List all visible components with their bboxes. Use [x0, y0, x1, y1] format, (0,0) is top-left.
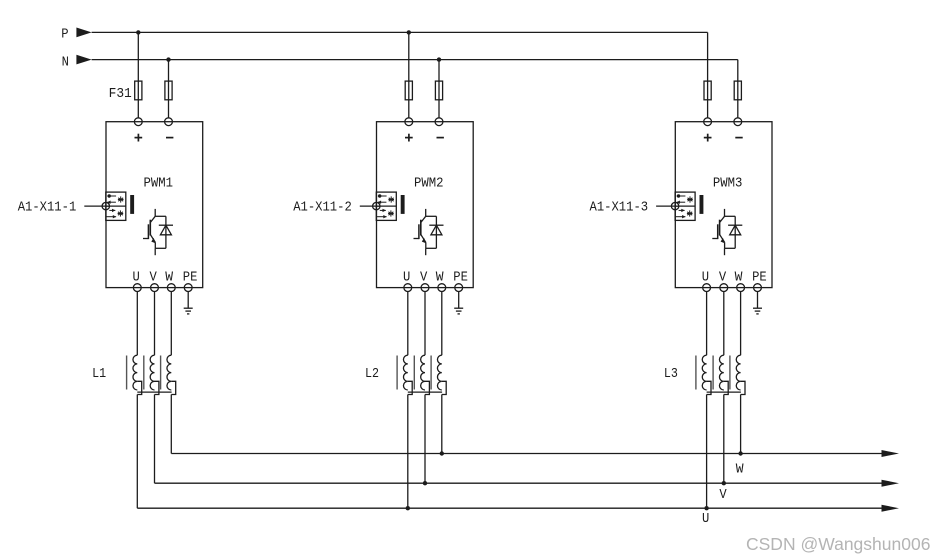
node P junction PWM1 [136, 30, 140, 34]
IGBT Q3 [712, 209, 735, 255]
inductor L2 winding W core bar [430, 356, 432, 390]
wire reactor L3 W to bus [740, 395, 742, 454]
node W bus junction PWM2 [440, 451, 444, 455]
inductor L1 winding W [167, 355, 171, 390]
wire N to fuse (PWM3) [737, 60, 739, 82]
wire fuse to - terminal (PWM1) [168, 100, 170, 118]
wire reactor L1 W to bus [170, 395, 172, 454]
label + (PWM1) [135, 137, 143, 139]
terminal - (PWM1) [165, 118, 173, 126]
svg-text:U: U [702, 270, 709, 286]
V output arrow [882, 480, 900, 487]
svg-text:U: U [132, 270, 139, 286]
wire PE to ground (PWM1) [187, 292, 189, 309]
inductor L3 winding W [736, 355, 740, 390]
node U bus junction PWM3 [704, 506, 708, 510]
inductor L3 winding V core bar [712, 356, 714, 390]
P bus input arrow [76, 28, 91, 38]
svg-text:A1-X11-1: A1-X11-1 [18, 199, 77, 215]
svg-text:P: P [61, 26, 68, 42]
svg-text:PE: PE [183, 270, 198, 286]
wire reactor L1 V to bus [154, 395, 156, 484]
inductor L2 winding V core bar [413, 356, 415, 390]
svg-text:U: U [702, 511, 709, 527]
svg-text:L3: L3 [664, 366, 678, 382]
wire reactor L3 V to bus [723, 395, 725, 484]
wire P to fuse (PWM3) [707, 32, 709, 81]
inductor L3 winding W tap jog [741, 381, 745, 394]
reactor L2 bottom bar [408, 391, 442, 393]
wire W terminal to reactor L1 [170, 292, 172, 356]
connector terminal circle A1-X11-2 [373, 202, 380, 209]
label + (PWM2) [405, 137, 413, 139]
fuse F33 - [734, 81, 741, 100]
svg-text:PE: PE [752, 270, 767, 286]
PWM module PWM3 box [675, 122, 772, 288]
wire P to fuse (PWM2) [408, 32, 410, 81]
wire V terminal to reactor L2 [424, 292, 426, 356]
svg-text:L2: L2 [365, 366, 379, 382]
connector A1-X11-3 [675, 192, 695, 220]
label - (PWM3) [735, 137, 742, 139]
wire U terminal to reactor L2 [407, 292, 409, 356]
wire U output bus [137, 507, 882, 509]
black bar marker (PWM3) [700, 195, 704, 214]
black bar marker (PWM1) [130, 195, 134, 214]
diode D1 (freewheel) [159, 216, 173, 248]
node N junction PWM1 [166, 57, 170, 61]
svg-text:W: W [165, 270, 173, 286]
wire fuse to - terminal (PWM2) [438, 100, 440, 118]
node N junction PWM2 [437, 57, 441, 61]
reactor L1 bottom bar [137, 391, 171, 393]
terminal - (PWM2) [435, 118, 443, 126]
inductor L3 winding U [702, 355, 706, 390]
wire N bus [92, 59, 738, 61]
svg-text:PWM3: PWM3 [713, 176, 743, 192]
label - (PWM2) [437, 137, 444, 139]
fuse F31 - [165, 81, 172, 100]
PWM module PWM1 box [106, 122, 203, 288]
node V bus junction PWM3 [722, 481, 726, 485]
wire V terminal to reactor L1 [154, 292, 156, 356]
fuse F32 + [405, 81, 412, 100]
svg-text:W: W [736, 462, 744, 478]
svg-text:W: W [735, 270, 743, 286]
svg-text:V: V [420, 270, 428, 286]
inductor L3 winding V tap jog [724, 381, 728, 394]
wire fuse to + terminal (PWM3) [707, 100, 709, 118]
inductor L1 winding V [150, 355, 154, 390]
terminal + (PWM2) [405, 118, 413, 126]
wire W output bus [171, 453, 882, 455]
wire P bus [92, 31, 708, 33]
svg-text:W: W [436, 270, 444, 286]
ground (PWM1) [184, 308, 193, 314]
inductor L1 winding U [133, 355, 137, 390]
wire PE to ground (PWM3) [757, 292, 759, 309]
wire reactor L2 U to bus [407, 395, 409, 509]
watermark [746, 534, 930, 555]
wire W terminal to reactor L2 [441, 292, 443, 356]
IGBT Q1 [143, 209, 166, 255]
connector terminal circle A1-X11-1 [102, 202, 109, 209]
inductor L2 winding U [403, 355, 407, 390]
terminal + (PWM3) [704, 118, 712, 126]
wire lead to connector A1-X11-1 [84, 205, 109, 207]
svg-text:L1: L1 [92, 366, 106, 382]
svg-text:PWM2: PWM2 [414, 176, 444, 192]
inductor L2 winding W [437, 355, 441, 390]
inductor L1 winding V tap jog [155, 381, 159, 394]
reactor L3 bottom bar [707, 391, 741, 393]
inductor L2 winding U core bar [396, 356, 398, 390]
svg-text:F31: F31 [109, 86, 132, 102]
inductor L1 winding U core bar [126, 356, 128, 390]
svg-text:PE: PE [453, 270, 468, 286]
U output arrow [882, 505, 900, 512]
connector terminal circle A1-X11-3 [671, 202, 678, 209]
svg-text:A1-X11-2: A1-X11-2 [293, 199, 352, 215]
wire P to fuse (PWM1) [137, 32, 139, 81]
wire reactor L3 U to bus [706, 395, 708, 509]
label + (PWM3) [704, 137, 712, 139]
inductor L1 winding W core bar [160, 356, 162, 390]
inductor L2 winding V tap jog [425, 381, 429, 394]
node P junction PWM2 [407, 30, 411, 34]
inductor L3 winding V [719, 355, 723, 390]
IGBT Q2 [414, 209, 437, 255]
svg-text:U: U [403, 270, 410, 286]
node W bus junction PWM3 [738, 451, 742, 455]
wire lead to connector A1-X11-2 [360, 205, 380, 207]
PWM module PWM2 box [377, 122, 474, 288]
label - (PWM1) [166, 137, 173, 139]
fuse F32 - [435, 81, 442, 100]
ground (PWM3) [753, 308, 762, 314]
inductor L2 winding U tap jog [408, 381, 412, 394]
inductor L2 winding W tap jog [442, 381, 446, 394]
inductor L3 winding W core bar [729, 356, 731, 390]
wire fuse to + terminal (PWM1) [137, 100, 139, 118]
wire fuse to + terminal (PWM2) [408, 100, 410, 118]
wire lead to connector A1-X11-3 [656, 205, 679, 207]
wire reactor L1 U to bus [136, 395, 138, 509]
svg-text:A1-X11-3: A1-X11-3 [590, 199, 649, 215]
inductor L2 winding V [421, 355, 425, 390]
black bar marker (PWM2) [401, 195, 405, 214]
connector A1-X11-1 [106, 192, 126, 220]
connector A1-X11-2 [376, 192, 396, 220]
node U bus junction PWM2 [406, 506, 410, 510]
wire fuse to - terminal (PWM3) [737, 100, 739, 118]
node V bus junction PWM2 [423, 481, 427, 485]
diode D2 (freewheel) [429, 216, 443, 248]
inductor L1 winding V core bar [143, 356, 145, 390]
inductor L1 winding W tap jog [171, 381, 175, 394]
svg-text:V: V [150, 270, 158, 286]
inductor L3 winding U core bar [695, 356, 697, 390]
inductor L3 winding U tap jog [707, 381, 711, 394]
diode D3 (freewheel) [728, 216, 742, 248]
svg-text:PWM1: PWM1 [144, 176, 174, 192]
wire N to fuse (PWM1) [168, 60, 170, 82]
fuse F33 + [704, 81, 711, 100]
wire W terminal to reactor L3 [740, 292, 742, 356]
svg-text:N: N [62, 54, 69, 70]
svg-text:V: V [719, 270, 727, 286]
wire V terminal to reactor L3 [723, 292, 725, 356]
svg-text:V: V [719, 487, 727, 503]
wire V output bus [155, 482, 883, 484]
terminal - (PWM3) [734, 118, 742, 126]
fuse F31 + [135, 81, 142, 100]
wire N to fuse (PWM2) [438, 60, 440, 82]
N bus input arrow [76, 55, 91, 65]
W output arrow [882, 450, 900, 457]
wire reactor L2 W to bus [441, 395, 443, 454]
ground (PWM2) [454, 308, 463, 314]
wire reactor L2 V to bus [424, 395, 426, 484]
wire PE to ground (PWM2) [458, 292, 460, 309]
wire U terminal to reactor L3 [706, 292, 708, 356]
inductor L1 winding U tap jog [137, 381, 141, 394]
wire U terminal to reactor L1 [136, 292, 138, 356]
terminal + (PWM1) [134, 118, 142, 126]
